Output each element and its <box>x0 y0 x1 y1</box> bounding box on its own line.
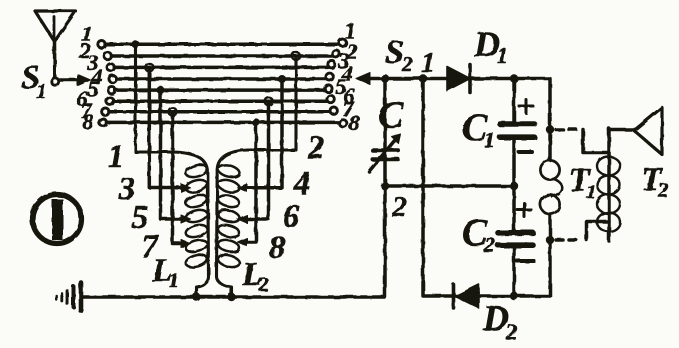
wire earpiece 2 to junction <box>548 214 552 240</box>
wire tap3 to L1 <box>149 67 184 187</box>
svg-text:2: 2 <box>391 191 407 223</box>
label D2 <box>482 298 517 344</box>
svg-text:4: 4 <box>293 166 311 202</box>
right contact labels 1-8 <box>335 18 359 135</box>
ground symbol <box>56 283 81 312</box>
left contact 7 <box>102 108 109 115</box>
arrowhead tap6 <box>238 215 248 223</box>
junction L1-ground <box>192 293 200 301</box>
wire line 7 <box>109 110 330 114</box>
svg-text:1: 1 <box>497 43 508 68</box>
arrowhead tap4 <box>238 184 248 192</box>
label T2 <box>641 161 669 202</box>
label C1 <box>462 107 495 152</box>
label L2 <box>241 256 269 296</box>
junction tap8 on line8 <box>252 118 260 126</box>
node 1 junction <box>419 74 427 82</box>
dashed link top <box>556 128 582 132</box>
wire node1 down to D2 line <box>423 79 550 297</box>
coil tap labels <box>108 130 325 266</box>
right contact 5 <box>325 85 332 92</box>
loudspeaker T2 coil core <box>607 129 611 242</box>
wire tap5 to L1 <box>161 90 184 219</box>
loudspeaker T2 horn wire <box>609 128 634 132</box>
left contact 2 <box>104 52 111 59</box>
headphones T1 earpiece 2 <box>540 195 559 214</box>
label S2 <box>385 34 413 76</box>
headphones T1 cord curve <box>552 179 562 197</box>
svg-text:1: 1 <box>421 47 436 79</box>
label D1 <box>473 24 508 68</box>
wire dashed-link step top <box>583 130 609 153</box>
ground wire (bottom bus) <box>82 79 385 297</box>
wire line 6 <box>114 99 327 103</box>
wire tap2 to L2 top <box>217 56 297 297</box>
svg-text:D: D <box>482 298 509 338</box>
wire junction to earpiece 1 <box>548 130 552 161</box>
junction tap2 on line2 <box>292 52 300 60</box>
junction L2-ground <box>227 293 235 301</box>
node 2 wire <box>385 184 514 188</box>
svg-text:D: D <box>473 24 500 64</box>
junction tap7 on line7 <box>169 108 177 116</box>
switch S1 wiper node <box>51 78 58 85</box>
svg-text:C: C <box>378 94 404 136</box>
label T1 <box>569 162 596 203</box>
wire line 3 <box>114 66 328 70</box>
svg-text:8: 8 <box>348 110 359 135</box>
C2 polarity - <box>517 259 534 263</box>
wire tap8 to L2 <box>243 122 256 242</box>
left contact 4 <box>109 75 116 82</box>
svg-text:1: 1 <box>36 79 47 103</box>
loudspeaker T2 coil winding <box>597 157 620 232</box>
junction S2/C <box>381 74 389 82</box>
headphones T1 earpiece 1 <box>540 160 559 179</box>
svg-text:2: 2 <box>401 52 413 76</box>
junction tap4 on line4 <box>278 75 286 83</box>
right contact 2 <box>332 50 339 57</box>
wire line 5 <box>115 88 325 92</box>
C2 polarity + <box>517 203 531 217</box>
top wire S2 to D1 to C1 <box>385 79 550 130</box>
junction tap1 on line1 <box>132 40 140 48</box>
junction tap6 on line6 <box>265 97 273 105</box>
wire tap4 to L2 <box>243 79 282 188</box>
switch S2 wiper arrow <box>356 73 385 85</box>
left contact labels 1-8 <box>76 21 102 134</box>
label C2 <box>462 212 495 257</box>
wire tap1 to L1 top <box>136 44 209 297</box>
diode D1 <box>447 65 470 93</box>
wire tap7 to L1 <box>173 112 184 244</box>
headphones T1 junction bottom <box>546 236 554 244</box>
right contact 7 <box>330 107 337 114</box>
left contact 3 <box>107 64 114 71</box>
capacitor C1 plates <box>500 124 535 137</box>
wire line 8 <box>106 121 339 125</box>
right contact 4 <box>326 73 333 80</box>
dashed link bottom <box>556 238 581 242</box>
svg-text:8: 8 <box>269 230 286 266</box>
right contact 8 <box>340 120 347 127</box>
junction C2 bottom <box>510 292 518 300</box>
svg-text:8: 8 <box>82 109 93 134</box>
label S1 <box>21 59 47 103</box>
arrowhead tap8 <box>238 238 248 246</box>
wire line 2 <box>111 54 332 58</box>
C1 polarity - <box>519 150 532 154</box>
diode D2 <box>454 285 480 309</box>
coil L1 <box>184 163 208 269</box>
svg-text:2: 2 <box>307 130 325 166</box>
left contact 6 <box>106 98 113 105</box>
junction tap3 on line3 <box>145 63 153 71</box>
node 2 junction <box>381 182 389 190</box>
antenna W1 <box>35 11 76 78</box>
left contact 1 <box>98 41 105 48</box>
svg-text:2: 2 <box>657 178 669 202</box>
right contact 1 <box>339 39 346 46</box>
junction C1 bottom / node2 right <box>510 182 518 190</box>
junction tap5 on line5 <box>157 86 165 94</box>
capacitor C1 branch wires <box>512 79 516 122</box>
wire tap6 to L2 <box>243 101 269 219</box>
svg-text:1: 1 <box>169 270 179 292</box>
svg-text:2: 2 <box>505 319 517 344</box>
switch S1 wiper arrow <box>60 74 91 85</box>
arrowhead tap3 <box>181 184 191 192</box>
arrowhead tap5 <box>181 215 191 223</box>
left contact 5 <box>108 86 115 93</box>
variable capacitor C arrow <box>369 134 401 172</box>
C1 polarity + <box>519 100 533 114</box>
wire line 1 <box>105 42 339 46</box>
svg-text:2: 2 <box>258 274 269 296</box>
svg-text:1: 1 <box>484 127 495 152</box>
right contact 3 <box>328 60 335 67</box>
svg-text:1: 1 <box>586 181 596 203</box>
label L1 <box>151 252 179 292</box>
svg-text:2: 2 <box>483 232 495 257</box>
wire dashed-link step bottom <box>587 222 610 241</box>
junction C1 top <box>510 74 518 82</box>
circled-I marker <box>33 195 82 244</box>
headphones T1 junction top <box>546 125 554 133</box>
variable capacitor C plates <box>373 150 399 159</box>
wire line 4 <box>116 77 326 81</box>
capacitor C2 plates <box>498 233 533 245</box>
svg-text:6: 6 <box>283 199 300 235</box>
coil L2 <box>217 163 241 269</box>
svg-text:1: 1 <box>108 139 125 175</box>
left contact 8 <box>99 119 106 126</box>
loudspeaker T2 horn <box>634 108 662 155</box>
right contact 6 <box>327 95 334 102</box>
arrowhead tap7 <box>181 240 191 248</box>
capacitor C2 branch wires <box>512 186 516 230</box>
